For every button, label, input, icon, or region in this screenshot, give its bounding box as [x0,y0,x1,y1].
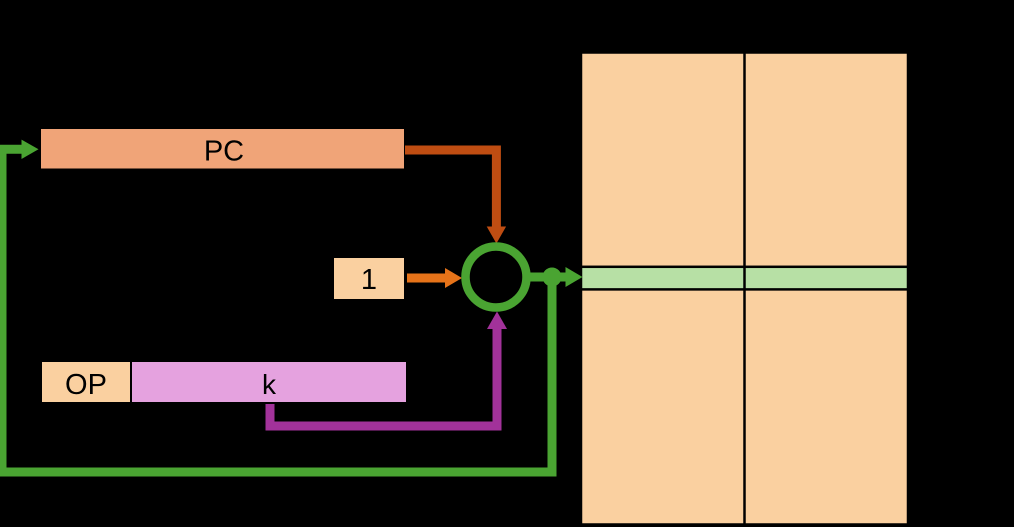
svg-text:PC: PC [204,136,244,168]
adder circle [466,247,527,308]
svg-text:1: 1 [361,264,377,296]
highlighted memory row [581,267,908,290]
arrowhead rust into adder [487,227,506,244]
arrowhead purple into adder [487,312,507,330]
register PC [40,128,405,170]
wire orange 1 to adder [407,274,446,283]
program memory table [581,53,908,525]
wire green feedback loop to PC [2,149,552,472]
arrowhead orange into adder [445,268,462,288]
operand k box [131,361,407,403]
arrowhead green into memory [566,267,583,287]
highlighted row divider [743,267,746,290]
junction dot [543,268,562,287]
svg-text:k: k [262,369,277,400]
wire green adder to memory [530,273,566,282]
arrowhead green into PC [22,140,39,159]
memory column divider [743,53,746,525]
wire purple k to adder [270,329,497,426]
wire rust PC to adder [405,150,496,228]
constant 1 box [333,257,405,300]
opcode OP box [41,361,131,403]
svg-text:OP: OP [65,369,107,401]
